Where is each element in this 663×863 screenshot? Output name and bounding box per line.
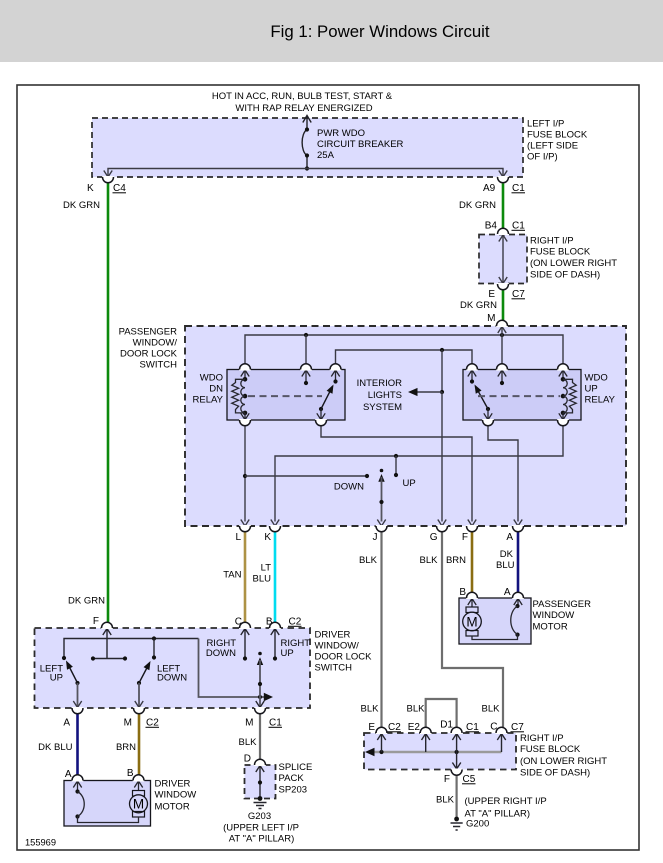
connector bump at (472,369.5) xyxy=(466,367,478,370)
LEFT DOWN arm to M exit xyxy=(138,683,140,708)
ground G200 symbol xyxy=(454,817,459,822)
arrow into M/C1 ground drop xyxy=(264,693,273,702)
svg-text:WINDOW: WINDOW xyxy=(533,610,575,621)
connector bump at (306,369.5) xyxy=(300,367,312,370)
connector bump at (77.5,780.5) xyxy=(72,778,84,781)
DN relay coil terminal arrow xyxy=(241,370,249,379)
svg-text:(ON LOWER RIGHT: (ON LOWER RIGHT xyxy=(520,756,607,767)
svg-text:WINDOW/: WINDOW/ xyxy=(315,641,360,652)
local UP contact stub xyxy=(395,456,397,475)
connector bump at (472,598) xyxy=(466,596,478,599)
svg-text:BLU: BLU xyxy=(496,560,515,571)
svg-text:WINDOW/: WINDOW/ xyxy=(133,338,178,349)
node: NC contact bus (line 2) xyxy=(336,350,473,364)
svg-text:BLK: BLK xyxy=(436,795,455,806)
svg-text:BRN: BRN xyxy=(116,742,136,753)
connector bump at (501.5,733) xyxy=(496,731,508,734)
svg-text:UP: UP xyxy=(281,648,294,659)
svg-text:WINDOW: WINDOW xyxy=(155,790,197,801)
svg-text:F: F xyxy=(93,616,99,627)
wire BLK G to right I/P fuse block C xyxy=(442,532,503,727)
svg-text:DK GRN: DK GRN xyxy=(459,200,496,211)
svg-text:F: F xyxy=(462,532,468,543)
connector bump at (381.5,733) xyxy=(376,731,388,734)
svg-text:M: M xyxy=(487,313,495,324)
splice pack SP203 (dashed box) xyxy=(245,765,276,799)
driver right-window switch arm xyxy=(258,652,262,656)
svg-text:BLK: BLK xyxy=(239,737,258,748)
svg-text:RIGHT I/P: RIGHT I/P xyxy=(530,236,574,247)
wire DK GRN from A9/C1 down to right I/P fuse block B4 xyxy=(502,184,505,229)
svg-text:B: B xyxy=(127,768,134,779)
motor M1: passenger window motor xyxy=(468,599,476,608)
svg-text:E: E xyxy=(368,722,375,733)
wire BLK jumper E2 to D1 xyxy=(426,699,457,728)
fuse block: right I/P lower (dashed box) xyxy=(364,733,516,770)
svg-text:D1: D1 xyxy=(440,720,453,731)
wire line2/interior-lights junction down to G exit xyxy=(441,392,443,522)
svg-text:AT "A" PILLAR): AT "A" PILLAR) xyxy=(229,834,295,845)
svg-text:(ON LOWER RIGHT: (ON LOWER RIGHT xyxy=(530,258,617,269)
svg-text:SP203: SP203 xyxy=(279,785,308,796)
wire to interior lights system xyxy=(441,350,443,392)
connector bump at (260,708) xyxy=(254,707,266,710)
connector bump at (260,765) xyxy=(254,763,266,766)
DN relay NC fixed contact (middle pin) xyxy=(302,370,310,383)
connector bump at (321,420) xyxy=(315,419,327,422)
connector bump at (275,526) xyxy=(269,525,281,528)
splice pack internal wire xyxy=(256,766,264,799)
connector bump at (563,369.5) xyxy=(557,367,569,370)
wire BRN M/C2 to driver motor B xyxy=(138,714,141,775)
svg-text:G: G xyxy=(430,532,438,543)
svg-text:UP: UP xyxy=(50,673,63,684)
svg-text:E2: E2 xyxy=(408,722,421,733)
svg-text:SWITCH: SWITCH xyxy=(315,663,353,674)
local window switch arm xyxy=(380,469,384,473)
internal ground bus xyxy=(368,751,502,754)
UP relay coil-arm dashed link xyxy=(478,395,560,397)
RIGHT DOWN contact from C xyxy=(241,629,249,659)
svg-text:LIGHTS: LIGHTS xyxy=(368,390,402,401)
svg-text:DOOR LOCK: DOOR LOCK xyxy=(315,652,373,663)
DN relay arm fixed contact (right pin) xyxy=(331,370,339,382)
svg-text:RELAY: RELAY xyxy=(585,395,616,406)
E2 terminal stem + arrow xyxy=(422,734,430,753)
svg-text:J: J xyxy=(373,532,378,543)
svg-text:G200: G200 xyxy=(466,819,489,830)
switch: LEFT UP xyxy=(75,681,79,685)
svg-text:DK: DK xyxy=(500,549,514,560)
svg-text:(LEFT SIDE: (LEFT SIDE xyxy=(527,141,578,152)
passenger window motor box xyxy=(459,598,531,644)
DN relay coil xyxy=(243,377,248,382)
svg-text:AT "A" PILLAR): AT "A" PILLAR) xyxy=(465,809,531,820)
connector bump at (245,526) xyxy=(239,525,251,528)
wire BLK J to right I/P fuse block E xyxy=(380,532,382,727)
svg-text:DOWN: DOWN xyxy=(206,648,236,659)
connector bump at (108,177) xyxy=(102,176,114,179)
svg-text:LT: LT xyxy=(261,563,272,574)
svg-text:G203: G203 xyxy=(248,811,271,822)
svg-text:UP: UP xyxy=(585,384,598,395)
B+ feed bar with end contacts xyxy=(93,658,125,660)
driver window motor box xyxy=(64,781,151,827)
wire M entry down to line 1 xyxy=(501,327,503,365)
switch: LEFT DOWN xyxy=(137,681,141,685)
svg-text:FUSE BLOCK: FUSE BLOCK xyxy=(520,744,581,755)
wire TAN L to driver switch C xyxy=(244,532,247,622)
svg-text:25A: 25A xyxy=(317,150,335,161)
connector bump at (138.5,780.5) xyxy=(133,778,145,781)
connector bump at (502,326) xyxy=(496,324,508,327)
wire DN arm to F exit xyxy=(321,425,472,522)
svg-text:WITH RAP RELAY ENERGIZED: WITH RAP RELAY ENERGIZED xyxy=(235,103,372,114)
connector bump at (563,420) xyxy=(557,419,569,422)
M/C1 exit arrow xyxy=(256,701,264,708)
fuse block: left I/P (top dashed box) xyxy=(92,118,523,177)
wire UP coil to K exit xyxy=(275,425,563,522)
connector bump at (442,526) xyxy=(436,525,448,528)
C terminal stem + arrow xyxy=(497,734,505,753)
svg-text:WDO: WDO xyxy=(585,373,608,384)
passenger motor bottom link xyxy=(472,635,518,640)
wire DN coil to L exit xyxy=(244,425,246,522)
svg-text:LEFT I/P: LEFT I/P xyxy=(527,119,564,130)
arrow to interior lights system xyxy=(408,388,418,396)
svg-text:INTERIOR: INTERIOR xyxy=(357,378,403,389)
svg-text:A: A xyxy=(504,587,511,598)
left arrowhead on ground bus xyxy=(365,748,375,757)
node: B+ feed bus (line 1) xyxy=(245,335,563,364)
svg-text:FUSE BLOCK: FUSE BLOCK xyxy=(530,247,591,258)
svg-text:BLK: BLK xyxy=(361,704,380,715)
svg-text:BLK: BLK xyxy=(420,555,439,566)
connector bump at (518,526) xyxy=(512,525,524,528)
svg-text:B: B xyxy=(459,587,466,598)
RIGHT UP contact from B xyxy=(271,629,279,659)
svg-text:SYSTEM: SYSTEM xyxy=(363,402,402,413)
motor M2: driver window motor xyxy=(134,781,142,791)
connector bump at (472,526) xyxy=(466,525,478,528)
UP relay arm exit arrow xyxy=(484,409,492,420)
svg-text:SIDE OF DASH): SIDE OF DASH) xyxy=(530,270,600,281)
svg-text:BLK: BLK xyxy=(359,555,378,566)
passenger motor internal breaker xyxy=(514,599,522,607)
connector bump at (518,598) xyxy=(512,596,524,599)
circuit breaker PWR WDO 25A xyxy=(302,116,311,169)
local DOWN contact line xyxy=(245,475,367,477)
exit arrows at passenger switch bottom xyxy=(241,520,249,527)
C1/D1 terminal stem + arrows xyxy=(452,734,460,770)
svg-text:BLU: BLU xyxy=(253,574,272,585)
UP relay NC fixed contact (middle pin) xyxy=(498,370,506,383)
svg-text:DK GRN: DK GRN xyxy=(68,596,105,607)
connector bump at (245,420) xyxy=(239,419,251,422)
svg-text:DOWN: DOWN xyxy=(334,482,364,493)
svg-text:TAN: TAN xyxy=(223,570,241,581)
connector bump at (488,420) xyxy=(482,419,494,422)
header bar xyxy=(0,0,663,62)
connector bump at (425.7,733) xyxy=(420,731,432,734)
svg-text:PWR WDO: PWR WDO xyxy=(317,128,365,139)
svg-text:HOT IN ACC, RUN, BULB TEST, ST: HOT IN ACC, RUN, BULB TEST, START & xyxy=(212,91,393,102)
arrow down at K exit xyxy=(104,171,112,178)
LEFT UP arm to A exit xyxy=(77,683,79,708)
connector bump at (77.5,708) xyxy=(72,707,84,710)
bus wire inside fuse block xyxy=(108,169,503,178)
svg-text:DOWN: DOWN xyxy=(157,673,187,684)
driver motor internal breaker xyxy=(73,781,81,792)
svg-text:DK GRN: DK GRN xyxy=(63,200,100,211)
connector bump at (275,628) xyxy=(269,626,281,629)
svg-text:Fig 1: Power Windows Circuit: Fig 1: Power Windows Circuit xyxy=(270,22,489,41)
driver window/door lock switch (dashed box) xyxy=(35,628,311,708)
internal wire through right I/P fuse block xyxy=(502,235,504,284)
connector bump at (245,369.5) xyxy=(239,367,251,370)
svg-text:F: F xyxy=(444,774,450,785)
F entry arrow + feed stem xyxy=(103,629,111,659)
connector bump at (503,234) xyxy=(497,232,509,235)
DN relay coil-arm dashed link xyxy=(248,395,322,397)
connector bump at (456.6,769.5) xyxy=(451,769,463,772)
svg-text:OF I/P): OF I/P) xyxy=(527,152,558,163)
wire DK BLU A to passenger motor A xyxy=(517,532,520,593)
connector bump at (503,177) xyxy=(497,176,509,179)
svg-text:E: E xyxy=(488,289,495,300)
driver motor bottom link xyxy=(78,817,139,823)
svg-text:D: D xyxy=(244,754,251,765)
arrow up at M entry xyxy=(498,327,506,334)
svg-text:BLK: BLK xyxy=(407,704,426,715)
wire BLK M/C1 to splice pack xyxy=(259,714,261,759)
DN relay arm exit arrow xyxy=(317,409,325,420)
UP relay coil bottom exit arrow xyxy=(559,413,567,420)
svg-text:SIDE OF DASH): SIDE OF DASH) xyxy=(520,768,590,779)
svg-text:B4: B4 xyxy=(485,221,498,232)
svg-text:DN: DN xyxy=(209,384,223,395)
wire DN relay middle terminal to line 1 xyxy=(305,335,307,364)
connector bump at (381.5,526) xyxy=(376,525,388,528)
svg-text:A9: A9 xyxy=(483,183,496,194)
svg-text:155969: 155969 xyxy=(25,838,56,848)
passenger window/door lock switch (big dashed box) xyxy=(185,326,626,526)
wire LT BLU K to driver switch B xyxy=(274,532,277,622)
svg-text:M: M xyxy=(245,718,253,729)
svg-text:(UPPER LEFT I/P: (UPPER LEFT I/P xyxy=(223,823,299,834)
arrow down at A9 exit xyxy=(499,171,507,178)
svg-text:DK BLU: DK BLU xyxy=(38,742,72,753)
svg-text:DRIVER: DRIVER xyxy=(155,779,191,790)
svg-text:K: K xyxy=(264,532,271,543)
connector bump at (245,628) xyxy=(239,626,251,629)
wire UP arm to A exit xyxy=(488,425,518,522)
relay U1: WDO DN RELAY box xyxy=(227,370,345,421)
svg-text:PASSENGER: PASSENGER xyxy=(533,599,592,610)
svg-text:MOTOR: MOTOR xyxy=(155,802,190,813)
svg-text:(UPPER RIGHT I/P: (UPPER RIGHT I/P xyxy=(465,796,547,807)
UP relay switch arm xyxy=(486,407,490,411)
svg-text:DRIVER: DRIVER xyxy=(315,630,351,641)
svg-text:DK GRN: DK GRN xyxy=(460,300,497,311)
svg-text:BLK: BLK xyxy=(482,704,501,715)
svg-text:K: K xyxy=(87,183,94,194)
E terminal stem + arrow xyxy=(377,734,385,753)
connector bump at (107,628) xyxy=(101,626,113,629)
connector bump at (139,708) xyxy=(133,707,145,710)
svg-text:M: M xyxy=(124,718,132,729)
svg-text:MOTOR: MOTOR xyxy=(533,622,568,633)
ground G203 symbol xyxy=(254,803,267,809)
svg-text:M: M xyxy=(466,615,477,630)
svg-text:PACK: PACK xyxy=(279,773,305,784)
wire DK GRN from E/C7 down to passenger switch M xyxy=(502,290,505,321)
wire DK GRN from K/C4 down to driver switch F xyxy=(107,183,110,622)
svg-text:UP: UP xyxy=(403,478,416,489)
UP relay coil terminal arrow xyxy=(559,370,567,379)
connector bump at (502,369.5) xyxy=(496,367,508,370)
svg-text:PASSENGER: PASSENGER xyxy=(119,327,178,338)
svg-text:L: L xyxy=(235,532,241,543)
svg-text:FUSE BLOCK: FUSE BLOCK xyxy=(527,130,588,141)
svg-text:BRN: BRN xyxy=(446,555,466,566)
UP relay coil xyxy=(561,377,566,382)
ground return line inside driver switch xyxy=(64,639,199,659)
svg-text:DOOR LOCK: DOOR LOCK xyxy=(120,349,178,360)
wire DK BLU A to driver motor A xyxy=(76,714,79,775)
connector bump at (456.6,733) xyxy=(451,731,463,734)
connector bump at (503,284) xyxy=(497,283,509,286)
connector bump at (335.5,369.5) xyxy=(330,367,342,370)
DN relay coil bottom exit arrow xyxy=(241,413,249,420)
svg-text:A: A xyxy=(506,532,513,543)
UP relay arm fixed contact (left pin) xyxy=(468,370,476,382)
svg-text:RIGHT I/P: RIGHT I/P xyxy=(520,733,564,744)
svg-text:SPLICE: SPLICE xyxy=(279,762,313,773)
wire BRN F to passenger motor B xyxy=(471,532,474,593)
DN relay switch arm xyxy=(319,407,323,411)
svg-text:A: A xyxy=(65,769,72,780)
svg-text:M: M xyxy=(133,797,144,812)
svg-text:WDO: WDO xyxy=(200,373,223,384)
svg-text:SWITCH: SWITCH xyxy=(140,360,178,371)
relay U2: WDO UP RELAY box xyxy=(463,370,581,421)
svg-text:A: A xyxy=(63,718,70,729)
svg-text:CIRCUIT BREAKER: CIRCUIT BREAKER xyxy=(317,139,404,150)
wire BLK F/C5 to ground G200 xyxy=(456,776,458,820)
fuse block: right I/P (small dashed box) xyxy=(479,235,527,284)
svg-text:RELAY: RELAY xyxy=(193,395,224,406)
